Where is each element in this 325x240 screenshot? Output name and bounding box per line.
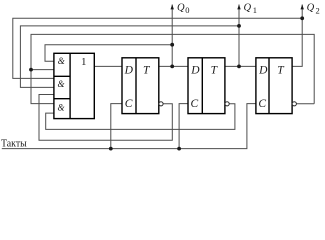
junction dot line D at Q0 [170, 43, 174, 47]
inversion bubble FF1 [159, 102, 163, 106]
wire FF2 C input drop [179, 104, 188, 149]
svg-text:&: & [58, 79, 65, 89]
svg-text:D: D [258, 65, 268, 77]
svg-text:C: C [258, 98, 266, 110]
wire Q2 vertical [292, 5, 302, 67]
junction dot clock at FF1 C [109, 147, 113, 151]
wire clock line Takty [2, 104, 256, 149]
junction dot ~Q2 tap [29, 68, 33, 72]
junction dot Q1 at T output wire [237, 65, 241, 69]
junction dot line B at Q1 [237, 24, 241, 28]
wire Q1 vertical [238, 5, 240, 67]
divider between AND column and OR 1 [69, 53, 71, 118]
AND-OR block outline [54, 53, 94, 118]
svg-text:Q: Q [307, 2, 315, 13]
flip-flop U2 divider [201, 58, 203, 114]
junction dot Q0 at T output wire [170, 65, 174, 69]
svg-text:1: 1 [81, 56, 87, 68]
flip-flop U3 divider [268, 58, 270, 114]
svg-text:Такты: Такты [1, 138, 27, 149]
wire line C feedback ~Q2 [31, 34, 314, 103]
svg-text:&: & [58, 102, 65, 112]
svg-text:2: 2 [316, 5, 320, 15]
wire FF1 inverted output ~Q0 to gate2 [39, 95, 172, 141]
flip-flop U2 box [188, 58, 225, 114]
svg-text:C: C [125, 98, 133, 110]
svg-text:0: 0 [185, 5, 189, 15]
wire FF2 T output to FF3 D input [225, 65, 256, 67]
wire Q0 vertical [171, 5, 173, 67]
arrow head Q2 [301, 4, 304, 9]
svg-text:1: 1 [253, 5, 257, 15]
svg-text:C: C [191, 98, 199, 110]
AND gate cell divider 2 [54, 98, 70, 100]
junction dot line A at Q2 [300, 16, 304, 20]
svg-text:D: D [124, 65, 134, 77]
wire FF1 C input drop [111, 104, 122, 149]
svg-text:&: & [58, 56, 65, 66]
svg-text:Q: Q [177, 2, 185, 13]
wire node ~Q2 tap to gate1 [31, 69, 54, 71]
arrow head Q1 [237, 4, 240, 9]
svg-text:D: D [190, 65, 200, 77]
svg-text:Q: Q [244, 2, 252, 13]
arrow head Q0 [171, 4, 174, 9]
wire line D feedback Q0 [45, 45, 172, 62]
wire FF1 T output to FF2 D input [159, 65, 188, 67]
wire FF2 inverted output ~Q1 to gate3 [46, 104, 235, 130]
inversion bubble FF2 [225, 102, 229, 106]
AND gate cell divider 1 [54, 75, 70, 77]
flip-flop U1 box [122, 58, 159, 114]
wire FF3 inverted output ~Q2 stub [296, 103, 314, 105]
junction dot clock at FF2 C [177, 147, 181, 151]
flip-flop U3 box [256, 58, 292, 114]
inversion bubble FF3 [292, 102, 296, 106]
flip-flop U1 divider [135, 58, 137, 114]
wire line B feedback Q1 [20, 26, 239, 88]
wire OR output to FF1 D input [94, 65, 122, 67]
wire line A feedback Q2 top [13, 18, 302, 78]
